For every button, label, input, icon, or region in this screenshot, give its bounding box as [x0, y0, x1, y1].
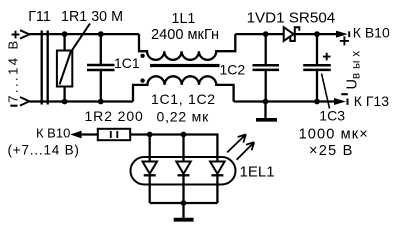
node dot R1 top [62, 31, 68, 37]
svg-text:1R2 200: 1R2 200 [85, 108, 144, 124]
resistor R1 leads [63, 34, 65, 101]
wire arrow to R2 [82, 133, 98, 135]
capacitor C3 leads [316, 34, 318, 101]
inductor L1 core [150, 64, 220, 67]
resistor R1 leader with diagonal [60, 24, 91, 85]
wire LED cathode rail [150, 202, 218, 204]
arrow К В10 bottom [70, 131, 81, 139]
polarity dot bottom winding [140, 78, 144, 82]
svg-text:К Г13: К Г13 [354, 93, 389, 109]
svg-text:1R1 30 М: 1R1 30 М [61, 9, 123, 25]
svg-text:1C3: 1C3 [319, 107, 345, 123]
node dot cathode rail [181, 200, 187, 206]
capacitor C2 leads [265, 34, 267, 101]
node dot ground [263, 99, 269, 105]
plus mark C3 [323, 53, 331, 61]
wire top rail left [29, 33, 139, 35]
wire top rail right [295, 33, 337, 35]
resistor R2 [98, 129, 130, 140]
svg-text:К В10: К В10 [36, 126, 70, 141]
ground right [264, 102, 266, 119]
minus mark left [10, 105, 17, 107]
node dot R1 bottom [62, 99, 68, 105]
connector Г11 double lines [41, 31, 43, 105]
emission arrow 2 [237, 142, 255, 160]
inductor L1 top winding [139, 34, 235, 60]
polarity dot top winding [140, 54, 144, 58]
node dot LED1 anode [147, 132, 153, 138]
capacitor C3 (electrolytic) [303, 65, 331, 70]
output arrow К Г13 [334, 98, 346, 105]
svg-text:1L1: 1L1 [172, 11, 196, 27]
wire top rail middle [235, 33, 283, 35]
wire R2 to LED anode rail [130, 135, 217, 162]
capacitor C1 leads [100, 34, 102, 101]
svg-text:1VD1 SR504: 1VD1 SR504 [247, 10, 336, 27]
inductor L1 bottom winding [133, 76, 234, 101]
resistor R2 power marks [111, 131, 118, 138]
node dot LED2 anode [181, 132, 187, 138]
plus mark left [12, 31, 20, 39]
capacitor C1 [87, 65, 115, 70]
diode VD1 cathode bar with hooks [290, 27, 299, 41]
svg-text:×25 В: ×25 В [309, 143, 354, 159]
leader line C3 [322, 74, 330, 109]
resistor R1 [57, 51, 72, 87]
node dot C1 top [98, 31, 104, 37]
plus mark output [340, 36, 349, 45]
LED 3 [210, 162, 225, 174]
svg-text:1000 мк×: 1000 мк× [299, 126, 369, 142]
svg-text:0,22 мк: 0,22 мк [157, 108, 210, 124]
pin arrow top (input +) [20, 30, 29, 38]
svg-text:Г11: Г11 [28, 9, 51, 25]
svg-text:К В10: К В10 [353, 25, 390, 41]
node dot C1 bottom [98, 99, 104, 105]
emission arrow 1 [227, 134, 246, 152]
LED assembly 1EL1 outline [131, 157, 236, 185]
pin arrow bottom (input -) [20, 97, 29, 106]
node dot C3 top [314, 31, 320, 37]
node dot C3 bottom [314, 99, 320, 105]
svg-text:1С1, 1С2: 1С1, 1С2 [151, 91, 216, 107]
diode VD1 (Schottky) [284, 27, 294, 41]
minus mark output [341, 93, 348, 95]
LED 1 [149, 135, 151, 162]
svg-text:1EL1: 1EL1 [240, 164, 275, 181]
svg-text:1C2: 1C2 [220, 62, 246, 78]
svg-text:1C1: 1C1 [114, 55, 140, 71]
wire bottom rail right [234, 100, 335, 102]
LED 2 [182, 135, 184, 162]
ground bottom [182, 203, 184, 218]
wire bottom rail left [29, 100, 133, 102]
node dot C2 top [263, 31, 269, 37]
svg-text:7...14 В: 7...14 В [6, 38, 21, 102]
capacitor C2 [253, 65, 280, 70]
output arrow К В10 [336, 31, 348, 38]
svg-text:(+7...14 В): (+7...14 В) [8, 142, 80, 157]
svg-text:2400 мкГн: 2400 мкГн [151, 27, 219, 43]
